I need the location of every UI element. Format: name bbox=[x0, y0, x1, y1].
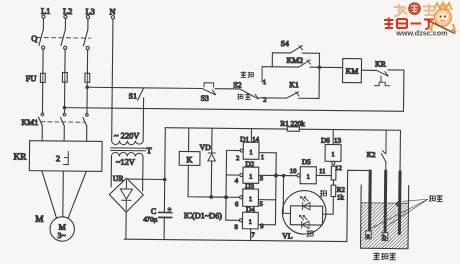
svg-text:3~: 3~ bbox=[58, 231, 66, 240]
svg-text:1: 1 bbox=[249, 219, 252, 226]
svg-text:11: 11 bbox=[319, 168, 325, 175]
svg-text:1: 1 bbox=[261, 154, 264, 161]
svg-text:UR: UR bbox=[113, 174, 125, 183]
label electrode a bbox=[366, 231, 372, 240]
breaker Q pole 1 bbox=[39, 29, 45, 49]
relay contact K1 blade bbox=[287, 92, 299, 99]
LED indicator VL circle bbox=[282, 190, 326, 234]
node branch merge bbox=[318, 66, 320, 68]
wire node10 horizontal bbox=[259, 174, 297, 176]
inverter D5 box bbox=[297, 167, 316, 184]
wire KM1 to KR pole2 bbox=[63, 126, 65, 141]
svg-text:1: 1 bbox=[263, 79, 266, 86]
label manual shoudong bbox=[241, 72, 254, 78]
DC bottom rail bbox=[124, 168, 370, 242]
wire KR to motor left bbox=[41, 171, 57, 218]
resistor body below D6 bbox=[331, 166, 336, 180]
watermark red badge bbox=[408, 2, 421, 15]
svg-text:14: 14 bbox=[252, 136, 260, 144]
watermark faded zhaoxinpian text bbox=[394, 4, 451, 17]
wire pin7 to rail bbox=[250, 229, 252, 241]
svg-text:b: b bbox=[383, 233, 387, 241]
svg-text:Q: Q bbox=[31, 34, 37, 43]
wire S4 branch right vertical bbox=[318, 53, 320, 98]
electrode c bar bbox=[398, 172, 402, 234]
wire pin14 bbox=[250, 129, 252, 143]
wire pin11 to R2 node bbox=[316, 174, 331, 176]
wire S1 down to transformer primary right bbox=[142, 98, 144, 141]
electrode a bar bbox=[368, 171, 372, 234]
svg-text:c: c bbox=[396, 200, 399, 208]
rectifier UR diamond bbox=[109, 178, 143, 212]
label auto zidong bbox=[237, 93, 250, 99]
relay contact K2 bbox=[381, 130, 386, 171]
svg-text:K: K bbox=[186, 155, 192, 164]
wire secondary right to bridge bbox=[142, 157, 144, 191]
relay coil K wire from rail bbox=[188, 128, 190, 152]
transformer T primary winding bbox=[112, 141, 144, 145]
svg-text:K1: K1 bbox=[289, 80, 299, 89]
svg-text:IC(D1~D6): IC(D1~D6) bbox=[184, 211, 222, 220]
wire input bus right vertical bbox=[274, 153, 277, 225]
wire pin13 bbox=[332, 130, 334, 145]
label duyechi plating bath bbox=[373, 253, 396, 260]
switch S4 blade bbox=[291, 45, 303, 53]
svg-text:S4: S4 bbox=[281, 39, 289, 48]
svg-text:M: M bbox=[35, 215, 43, 225]
pushbutton S3 blade bbox=[202, 88, 216, 94]
node N bbox=[109, 7, 115, 18]
svg-text:1: 1 bbox=[249, 149, 252, 156]
wire R2 to VL right bbox=[323, 196, 334, 214]
wire KM1 to KR pole3 bbox=[86, 126, 88, 141]
breaker Q pole 3 bbox=[83, 30, 89, 50]
node VL branch junction bbox=[282, 174, 284, 176]
node L3 bbox=[85, 7, 94, 18]
wire KM1 to KR pole1 bbox=[41, 126, 43, 141]
label dianji electrode bbox=[429, 195, 443, 202]
wire Q to FU phase1 bbox=[41, 49, 44, 113]
wire bridge minus down bbox=[125, 212, 127, 239]
node L3 control tap bbox=[86, 86, 88, 88]
wire KR to motor middle bbox=[62, 171, 64, 217]
wire KM2 branch bbox=[262, 66, 342, 69]
motor M circle bbox=[50, 217, 75, 242]
contactor KM1 pole2 bbox=[60, 113, 65, 126]
wire secondary left to bridge bbox=[110, 156, 112, 187]
svg-text:1: 1 bbox=[307, 174, 310, 181]
svg-text:2: 2 bbox=[236, 155, 239, 162]
svg-text:T: T bbox=[146, 145, 152, 155]
watermark mascot bbox=[427, 3, 456, 34]
inverter D3 box bbox=[240, 189, 259, 207]
svg-text:470µ: 470µ bbox=[143, 216, 157, 223]
contactor KM1 pole3 bbox=[83, 114, 88, 127]
wire Q to FU phase2 bbox=[63, 49, 66, 113]
DC top rail bbox=[165, 128, 401, 172]
wire S3 to S2 bbox=[215, 88, 240, 90]
inverter D2 box bbox=[240, 167, 259, 183]
pushbutton S3 bracket bbox=[204, 83, 214, 87]
wire bridge plus output bbox=[127, 178, 164, 180]
contactor KM1 pole1 bbox=[38, 113, 43, 126]
svg-text:1: 1 bbox=[249, 196, 252, 203]
plating tank walls bbox=[361, 185, 409, 249]
relay coil K box bbox=[179, 151, 200, 165]
node input bus junction bbox=[275, 174, 278, 177]
contactor coil KM box bbox=[342, 59, 361, 83]
wire between resistors bbox=[332, 180, 334, 185]
svg-text:VL: VL bbox=[282, 231, 293, 240]
node plus junction bbox=[164, 178, 166, 180]
thermal relay KR heater symbol bbox=[63, 152, 68, 165]
wire VL left drop bbox=[283, 176, 291, 214]
label green lv bbox=[320, 190, 327, 197]
wire stub output D2 bbox=[226, 174, 240, 176]
svg-text:1k: 1k bbox=[337, 193, 345, 201]
rectifier UR inner diode bbox=[120, 180, 133, 210]
wire stub input D3 bbox=[258, 199, 275, 201]
breaker Q pole 2 bbox=[61, 29, 67, 49]
svg-text:KM2: KM2 bbox=[286, 56, 303, 65]
switch S1 blade bbox=[138, 88, 144, 100]
svg-text:D2: D2 bbox=[245, 160, 254, 168]
inverter D6 box bbox=[325, 144, 341, 164]
wire K bottom to node bbox=[188, 165, 226, 197]
wire DC plus vertical through capacitor bbox=[164, 128, 165, 240]
thermal contact KR blade and heater bbox=[375, 70, 390, 85]
node L2 bbox=[63, 7, 72, 18]
svg-text:2: 2 bbox=[56, 154, 60, 163]
LED green symbol bbox=[300, 197, 310, 210]
svg-text:S1: S1 bbox=[129, 92, 137, 101]
wire KR to motor right bbox=[68, 171, 86, 218]
svg-text:KM1: KM1 bbox=[21, 118, 38, 127]
fuse FU phase2 bbox=[62, 72, 67, 82]
wire K1 branch bbox=[260, 97, 319, 100]
contactor contact KM2 blade bbox=[299, 60, 311, 67]
resistor R1 body bbox=[287, 127, 299, 132]
inverter D4 box bbox=[239, 212, 258, 229]
wire L2 drop to Q bbox=[64, 18, 66, 29]
wire KR right to return rail bbox=[387, 70, 403, 111]
svg-text:+: + bbox=[167, 207, 171, 214]
breaker Q linkage dashed bbox=[37, 37, 91, 40]
svg-text:1: 1 bbox=[249, 174, 252, 181]
wire stub input D4 bbox=[258, 224, 275, 226]
svg-text:K2: K2 bbox=[367, 151, 376, 159]
diode VD wire bbox=[210, 128, 213, 197]
svg-text:D5: D5 bbox=[302, 158, 311, 166]
wire gate output bus vertical bbox=[225, 150, 228, 220]
contactor KM1 linkage dashed bbox=[41, 121, 84, 123]
wire N vertical down to transformer primary bbox=[112, 19, 113, 141]
svg-text:L2: L2 bbox=[63, 7, 72, 16]
LED red symbol bbox=[299, 215, 309, 228]
node L1 bbox=[41, 7, 50, 18]
selector S2 contact 1 stub bbox=[262, 67, 265, 83]
svg-text:R1 220k: R1 220k bbox=[280, 120, 305, 128]
svg-text:D6: D6 bbox=[321, 137, 330, 145]
selector S2 blade to position 2 bbox=[240, 89, 259, 99]
svg-text:D1: D1 bbox=[240, 136, 249, 144]
svg-text:~ 220V: ~ 220V bbox=[114, 131, 139, 140]
svg-text:13: 13 bbox=[334, 137, 342, 145]
tank liquid hatching bbox=[361, 203, 409, 249]
svg-text:KM: KM bbox=[346, 67, 359, 76]
wire stub input D1 bbox=[259, 152, 276, 154]
capacitor C plates bbox=[159, 212, 172, 217]
svg-text:N: N bbox=[109, 7, 115, 16]
wire KM to KR contact bbox=[361, 69, 376, 71]
LED loop rectangle bbox=[290, 206, 322, 225]
wire S4 branch horizontal bbox=[272, 52, 319, 55]
svg-text:1: 1 bbox=[331, 151, 334, 158]
wire L1 drop to Q bbox=[42, 18, 44, 29]
electrode b bar bbox=[384, 171, 388, 235]
wire stub output D4 bbox=[226, 219, 240, 221]
transformer T core bbox=[111, 148, 146, 151]
svg-text:S3: S3 bbox=[201, 94, 209, 103]
svg-text:S2: S2 bbox=[233, 80, 241, 89]
node L2 control tap bbox=[63, 106, 65, 108]
svg-text:www.dzsc.com: www.dzsc.com bbox=[395, 29, 447, 38]
wire Q to FU phase3 bbox=[86, 50, 89, 114]
svg-text:VD: VD bbox=[200, 143, 212, 152]
wire control return L2 horizontal bbox=[65, 108, 404, 112]
liquid surface line bbox=[361, 202, 408, 205]
svg-text:C: C bbox=[151, 207, 156, 216]
transformer T secondary winding bbox=[111, 152, 143, 156]
fuse FU phase3 bbox=[85, 73, 90, 82]
wire L3 drop to Q bbox=[87, 19, 89, 30]
svg-text:D4: D4 bbox=[246, 206, 255, 214]
label electrode b bbox=[382, 232, 388, 241]
svg-text:~12V: ~12V bbox=[116, 158, 135, 167]
fuse FU phase1 bbox=[40, 73, 45, 82]
watermark weiku yixia red text bbox=[384, 18, 434, 30]
svg-text:KR: KR bbox=[375, 59, 387, 68]
label red hong bbox=[307, 230, 314, 237]
svg-text:D3: D3 bbox=[245, 182, 254, 190]
wire node to D3 output bbox=[211, 196, 239, 198]
wire S4 branch left vertical bbox=[271, 53, 273, 67]
diode VD symbol bbox=[208, 153, 215, 161]
wire D6 output link bbox=[332, 165, 334, 167]
node VD junction bbox=[210, 196, 213, 199]
node feedback junction bbox=[225, 196, 228, 199]
svg-text:FU: FU bbox=[26, 74, 37, 83]
wire control phase L3 horizontal bbox=[87, 87, 202, 88]
thermal relay KR box bbox=[29, 141, 102, 172]
electrode pointer lines bbox=[372, 199, 428, 229]
wire stub output D1 bbox=[227, 149, 241, 151]
svg-text:KR: KR bbox=[13, 152, 27, 162]
svg-text:10: 10 bbox=[290, 168, 297, 175]
svg-text:L1: L1 bbox=[41, 7, 50, 16]
svg-text:L3: L3 bbox=[85, 7, 94, 16]
inverter D1 box bbox=[240, 142, 259, 159]
resistor R2 body bbox=[331, 185, 336, 196]
